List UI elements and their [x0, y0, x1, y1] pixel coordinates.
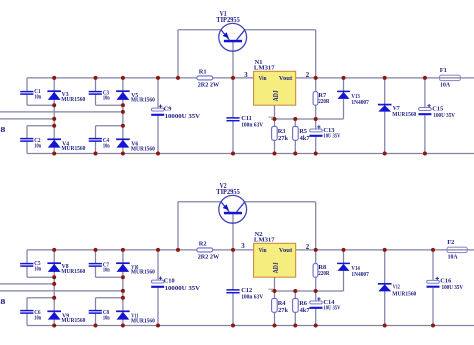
- pin 2: [306, 72, 310, 79]
- svg-text:MUR1560: MUR1560: [131, 317, 155, 324]
- fuse F1: [440, 67, 461, 89]
- wire collector: [245, 29, 316, 31]
- capacitor C15: [418, 104, 455, 119]
- wire resistor branch R4: [274, 291, 276, 326]
- pin 3: [241, 243, 245, 250]
- diode V10: [116, 263, 155, 275]
- wire cap branch C15: [424, 78, 426, 154]
- wire collector riser: [315, 30, 317, 78]
- svg-text:2: 2: [306, 72, 310, 79]
- svg-text:TIP2955: TIP2955: [216, 189, 240, 196]
- transistor V2 TIP2955: [216, 182, 246, 223]
- svg-text:ADJ: ADJ: [272, 90, 280, 102]
- svg-text:R1: R1: [199, 69, 207, 76]
- wire diode branch V12: [384, 250, 386, 326]
- wire output rail: [296, 249, 447, 251]
- junction dots bottom rail: [52, 152, 427, 156]
- diode V7: [378, 105, 416, 118]
- svg-text:100n 63V: 100n 63V: [241, 122, 263, 129]
- wire cap branch C8: [95, 298, 97, 326]
- wire right leg: [122, 250, 124, 326]
- svg-text:ADJ: ADJ: [272, 262, 280, 274]
- op-amp regulator N1 LM317: [254, 59, 296, 105]
- op-amp regulator N2 LM317: [254, 231, 296, 277]
- diode V13: [337, 91, 369, 106]
- svg-text:100U 35V: 100U 35V: [442, 284, 464, 291]
- svg-text:F1: F1: [440, 67, 447, 74]
- svg-text:10A: 10A: [440, 82, 450, 89]
- wire emitter: [178, 29, 221, 31]
- capacitor C8: [89, 309, 110, 321]
- svg-text:MUR1560: MUR1560: [61, 145, 85, 152]
- wire collector: [245, 201, 316, 203]
- junction dots ADJ rail: [273, 289, 318, 293]
- wire filter cap branch: [157, 78, 159, 154]
- wire filter cap branch: [157, 250, 159, 326]
- svg-text:10U 35V: 10U 35V: [323, 305, 340, 312]
- wire fuse to edge: [460, 77, 474, 79]
- wire cap branch C16: [432, 250, 434, 326]
- resistor R4: [272, 298, 289, 314]
- wire loop2 tops: [27, 297, 123, 299]
- capacitor C10: [151, 277, 200, 292]
- wire cap branch C2: [26, 126, 28, 154]
- svg-text:MUR1560: MUR1560: [131, 145, 155, 152]
- junction dots bridge legs: [52, 103, 125, 128]
- wire diode branch V14: [343, 250, 345, 291]
- svg-text:1N4007: 1N4007: [351, 271, 369, 278]
- wire ADJ pin stub: [274, 277, 276, 291]
- resistor R3: [272, 126, 289, 141]
- svg-text:3: 3: [241, 243, 245, 250]
- diode V9: [47, 311, 85, 324]
- wire cap branch C13: [315, 119, 317, 154]
- capacitor C6: [20, 309, 41, 321]
- capacitor C2: [20, 137, 41, 149]
- svg-text:Vout: Vout: [279, 247, 293, 254]
- wire emitter riser: [177, 30, 179, 78]
- svg-text:Vout: Vout: [279, 75, 293, 82]
- net label 08: [0, 298, 6, 306]
- wire loop1 bottoms: [27, 276, 123, 278]
- capacitor C13: [310, 125, 341, 140]
- resistor R8: [313, 264, 330, 278]
- wire resistor branch R6: [294, 291, 296, 326]
- junction dots bottom rail: [52, 324, 435, 328]
- wire top rail left: [27, 249, 197, 251]
- wire cap branch C7: [95, 250, 97, 277]
- svg-text:4k7: 4k7: [300, 135, 311, 142]
- svg-text:4k7: 4k7: [300, 307, 311, 314]
- wire right leg: [122, 78, 124, 154]
- wire cap branch C1: [26, 78, 28, 105]
- svg-text:27k: 27k: [278, 307, 288, 314]
- wire bottom rail: [27, 325, 474, 327]
- svg-text:R3: R3: [278, 128, 286, 135]
- wire loop2 tops: [27, 125, 123, 127]
- svg-text:TIP2955: TIP2955: [216, 17, 240, 24]
- svg-text:Vin: Vin: [259, 247, 267, 254]
- capacitor C9: [151, 105, 200, 120]
- svg-text:C9: C9: [164, 106, 172, 113]
- resistor R2: [197, 241, 220, 261]
- wire bottom rail: [27, 153, 474, 155]
- wire resistor branch R8: [315, 250, 317, 291]
- svg-text:MUR1560: MUR1560: [392, 111, 416, 118]
- capacitor C12: [226, 287, 263, 301]
- wire bypass cap branch: [232, 78, 234, 154]
- wire collector riser: [315, 202, 317, 250]
- svg-text:LM317: LM317: [254, 236, 276, 243]
- resistor R5: [293, 126, 311, 141]
- diode V5: [116, 91, 155, 103]
- wire fuse to edge: [467, 249, 474, 251]
- wire ADJ rail: [271, 290, 344, 292]
- svg-text:R2: R2: [199, 241, 207, 248]
- wire loop1 bottoms: [27, 104, 123, 106]
- svg-text:10000U 35V: 10000U 35V: [165, 285, 201, 292]
- capacitor C11: [226, 115, 263, 129]
- resistor R6: [293, 298, 311, 314]
- wire top rail mid: [213, 77, 254, 79]
- svg-text:220R: 220R: [318, 270, 329, 277]
- wire cap branch C5: [26, 250, 28, 277]
- wire cap branch C14: [315, 291, 317, 326]
- diode V4: [47, 139, 85, 152]
- svg-text:10n: 10n: [34, 314, 41, 321]
- svg-text:1N4007: 1N4007: [351, 99, 369, 106]
- svg-text:10000U 35V: 10000U 35V: [165, 113, 201, 120]
- svg-text:10n: 10n: [103, 266, 110, 273]
- wire base lead: [232, 42, 234, 78]
- svg-text:MUR1560: MUR1560: [61, 317, 85, 324]
- diode V14: [337, 263, 369, 278]
- diode V8: [47, 263, 85, 275]
- wire bypass cap branch: [232, 250, 234, 326]
- wire emitter: [178, 201, 221, 203]
- pin 1 tick: [268, 288, 274, 290]
- junction dots top rail: [52, 248, 435, 252]
- svg-text:08: 08: [0, 126, 6, 134]
- svg-text:MUR1560: MUR1560: [131, 97, 155, 104]
- wire emitter riser: [177, 202, 179, 250]
- svg-text:10n: 10n: [103, 314, 110, 321]
- wire top rail left: [27, 77, 197, 79]
- wire resistor branch R3: [274, 119, 276, 154]
- junction dots top rail: [52, 76, 427, 80]
- wire input AC line 2: [0, 290, 123, 292]
- svg-text:R6: R6: [299, 300, 308, 307]
- junction dots bridge legs: [52, 275, 125, 300]
- wire input AC line 1: [0, 283, 54, 285]
- wire top rail mid: [213, 249, 254, 251]
- svg-text:10n: 10n: [103, 142, 110, 149]
- svg-text:MUR1560: MUR1560: [392, 290, 416, 297]
- wire ADJ pin stub: [274, 105, 276, 119]
- svg-text:LM317: LM317: [254, 64, 276, 71]
- svg-text:27k: 27k: [278, 135, 288, 142]
- wire cap branch C3: [95, 78, 97, 105]
- junction dots ADJ rail: [273, 117, 318, 121]
- resistor R1: [197, 69, 220, 89]
- svg-text:MUR1560: MUR1560: [61, 96, 85, 103]
- svg-text:10n: 10n: [34, 93, 41, 100]
- wire left leg: [53, 250, 55, 326]
- svg-text:F2: F2: [447, 239, 454, 246]
- wire output rail: [296, 77, 440, 79]
- svg-text:3: 3: [244, 72, 248, 79]
- diode V11: [116, 311, 155, 324]
- wire left leg: [53, 78, 55, 154]
- svg-text:Vin: Vin: [259, 75, 267, 82]
- svg-text:2R2 2W: 2R2 2W: [198, 81, 220, 88]
- svg-text:10U 35V: 10U 35V: [323, 133, 340, 140]
- capacitor C1: [20, 88, 41, 100]
- svg-text:220R: 220R: [318, 98, 329, 105]
- resistor R7: [313, 92, 330, 106]
- wire input AC line 1: [0, 111, 123, 113]
- pin 1 tick: [268, 116, 274, 118]
- svg-text:R4: R4: [278, 300, 287, 307]
- svg-text:08: 08: [0, 298, 6, 306]
- wire diode branch V7: [384, 78, 386, 154]
- svg-text:10n: 10n: [103, 94, 110, 101]
- transistor V1 TIP2955: [216, 10, 246, 51]
- svg-text:100U 35V: 100U 35V: [433, 112, 455, 119]
- svg-text:R5: R5: [299, 128, 307, 135]
- pin 2: [306, 244, 310, 251]
- diode V12: [378, 283, 416, 297]
- svg-text:MUR1560: MUR1560: [131, 269, 155, 276]
- svg-text:V12: V12: [393, 283, 400, 290]
- wire cap branch C4: [95, 126, 97, 154]
- fuse F2: [447, 239, 467, 261]
- svg-text:MUR1560: MUR1560: [61, 268, 85, 275]
- capacitor C14: [310, 297, 341, 312]
- wire base lead: [232, 214, 234, 250]
- pin 3: [244, 72, 248, 79]
- capacitor C5: [20, 260, 41, 272]
- net label 08: [0, 126, 6, 134]
- diode V6: [116, 139, 155, 152]
- svg-text:10A: 10A: [448, 254, 458, 261]
- svg-text:2R2 2W: 2R2 2W: [198, 253, 220, 260]
- svg-text:2: 2: [306, 244, 310, 251]
- wire ADJ rail: [271, 118, 344, 120]
- wire resistor branch R7: [315, 78, 317, 119]
- wire diode branch V13: [343, 78, 345, 119]
- wire cap branch C6: [26, 298, 28, 326]
- capacitor C16: [427, 277, 464, 291]
- svg-text:10n: 10n: [34, 265, 41, 272]
- capacitor C3: [89, 89, 110, 101]
- svg-text:10n: 10n: [34, 142, 41, 149]
- svg-text:100n 63V: 100n 63V: [241, 294, 263, 301]
- svg-text:C10: C10: [164, 278, 175, 285]
- diode V3: [47, 91, 85, 103]
- wire input AC line 2: [0, 118, 54, 120]
- capacitor C7: [89, 261, 110, 273]
- capacitor C4: [89, 137, 110, 149]
- wire resistor branch R5: [294, 119, 296, 154]
